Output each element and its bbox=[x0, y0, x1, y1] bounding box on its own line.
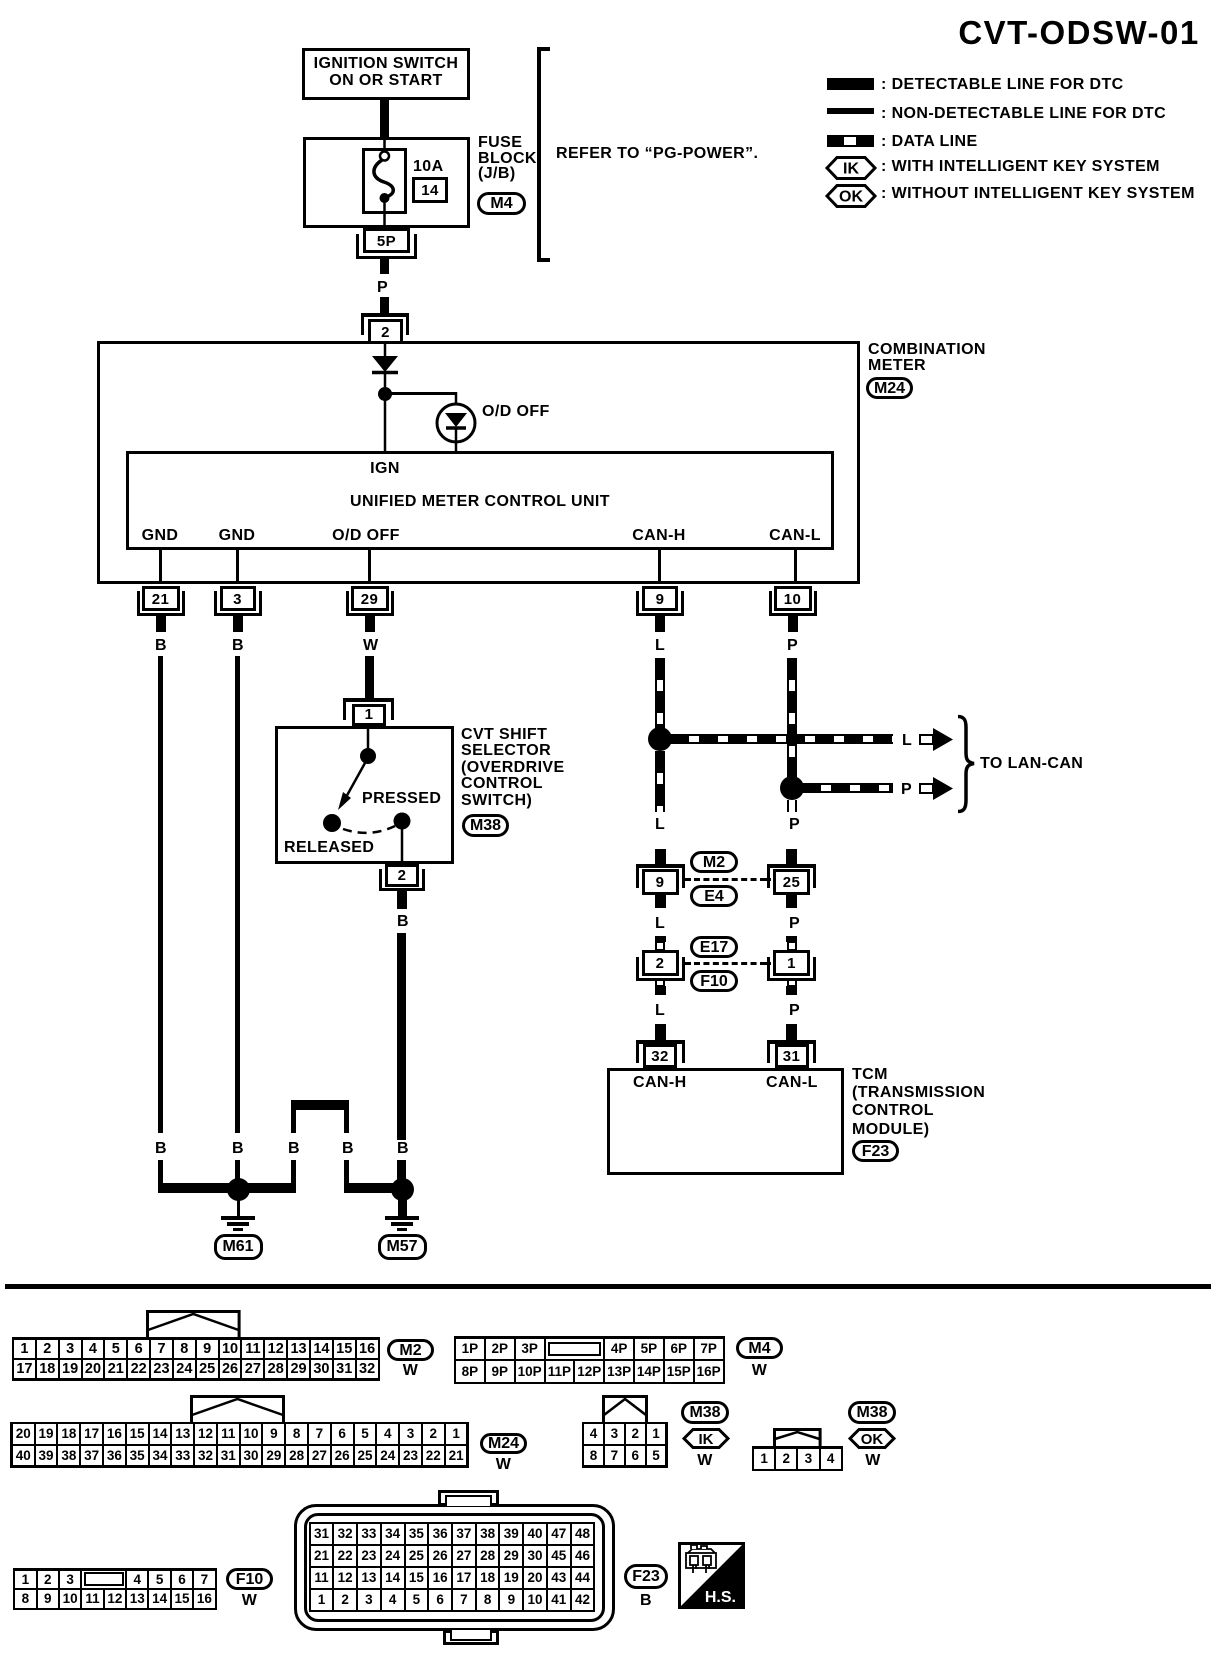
wire W from pin 29 down to CVT selector bbox=[365, 656, 374, 698]
wire seg to bus 2 bbox=[235, 1160, 240, 1183]
dashed link 2 to 1 bbox=[684, 962, 691, 965]
CVT selector connector 2 box bbox=[385, 864, 419, 887]
connector id F10 oval bbox=[690, 970, 738, 992]
arrow L to lan-can bbox=[919, 727, 955, 751]
connector M24 tab bbox=[190, 1395, 285, 1425]
fuse symbol bbox=[362, 137, 407, 228]
ground symbol M61 bbox=[237, 1198, 240, 1217]
unified meter control unit box bbox=[126, 451, 834, 550]
TO LAN-CAN label bbox=[980, 755, 1083, 773]
M24 colour W bbox=[480, 1456, 527, 1474]
F23 colour B bbox=[624, 1592, 668, 1610]
CVT selector connector 1 shroud bbox=[343, 698, 394, 702]
pin label GND 1 bbox=[120, 527, 200, 545]
label P at lan-can bbox=[901, 781, 912, 799]
wire label B below CVT bbox=[397, 913, 409, 931]
junction node inside meter bbox=[378, 387, 392, 401]
wire label B jumper left bbox=[288, 1140, 300, 1158]
LED O/D OFF indicator bbox=[430, 392, 490, 454]
inline connector 9 (M2/E4) CAN-H bbox=[636, 864, 685, 868]
M38 IK colour W bbox=[681, 1452, 729, 1470]
TCM connector 31 box bbox=[775, 1044, 809, 1068]
wire pin stub GND 21 bbox=[159, 550, 162, 584]
TCM pin label CAN-H bbox=[633, 1074, 687, 1092]
wire label B gnd1 bbox=[155, 637, 167, 655]
diode D inside meter bbox=[360, 343, 480, 453]
connector id M2 oval (bottom) bbox=[387, 1339, 434, 1361]
connector M38-OK tab bbox=[773, 1428, 822, 1449]
M4 colour W bbox=[736, 1362, 783, 1380]
connector id M38 oval (OK) bbox=[848, 1401, 896, 1424]
label L at lan-can bbox=[902, 732, 912, 750]
wire seg to bus 5 bbox=[397, 1160, 406, 1183]
legend data line text bbox=[881, 133, 978, 151]
wire label L canh bbox=[655, 637, 665, 655]
wire stub above TCM 32 bbox=[655, 1024, 666, 1044]
connector F23 top tab bbox=[438, 1490, 499, 1506]
pin 21 connector box under meter bbox=[142, 586, 180, 611]
wire stub below 5P bbox=[380, 259, 389, 274]
connector F23 bottom tab bbox=[443, 1630, 499, 1645]
legend IK text bbox=[881, 158, 1160, 176]
wire pin stub GND 3 bbox=[236, 550, 239, 584]
wire label W od bbox=[363, 637, 379, 655]
IGN label bbox=[345, 460, 425, 478]
wire label P bbox=[377, 279, 388, 297]
fuse block label bbox=[478, 135, 537, 182]
M38 OK colour W bbox=[849, 1452, 897, 1470]
connector M4 pin grid bbox=[454, 1336, 726, 1384]
wire junction to LED bbox=[385, 392, 456, 395]
connector id M38 oval bbox=[462, 814, 509, 837]
dashed link 9 to 25 bbox=[684, 878, 691, 881]
connector id M4 oval (bottom) bbox=[736, 1337, 783, 1359]
wire label P canl bbox=[787, 637, 798, 655]
TCM pin label CAN-L bbox=[766, 1074, 818, 1092]
wire stub above TCM 31 bbox=[786, 1024, 797, 1044]
legend non-detectable text bbox=[881, 105, 1166, 123]
RELEASED label bbox=[284, 839, 374, 857]
wire label B gnd2 bbox=[232, 637, 244, 655]
connector M24 pin grid bbox=[10, 1422, 469, 1468]
junction node CAN-L bbox=[780, 776, 804, 800]
connector id M4 oval bbox=[477, 192, 526, 215]
wire ignition to fuse block (detectable) bbox=[380, 100, 389, 137]
pin label GND 2 bbox=[197, 527, 277, 545]
TCM connector 32 box bbox=[643, 1044, 677, 1068]
wire label L mid3 bbox=[655, 1002, 665, 1020]
CVT selector connector 1 box bbox=[352, 704, 386, 726]
M2 colour W bbox=[387, 1362, 434, 1380]
F10 colour W bbox=[226, 1592, 273, 1610]
pin 3 connector box under meter bbox=[220, 586, 256, 611]
connector M38-IK tab bbox=[602, 1395, 648, 1425]
wire pin stub CAN-H 9 bbox=[658, 550, 661, 584]
inline connector 25 (M2/E4) CAN-L bbox=[767, 864, 816, 868]
TCM connector 31 shroud bbox=[767, 1040, 816, 1044]
switch internals bbox=[275, 726, 454, 864]
CAN-H data line below junction bbox=[655, 751, 665, 812]
ground id M61 oval bbox=[214, 1234, 263, 1260]
legend data line sample bbox=[827, 135, 874, 147]
wire label B gnd wire 1 bbox=[155, 1140, 167, 1158]
junction node ground M61 bbox=[227, 1178, 250, 1201]
wire label P mid2 bbox=[789, 915, 800, 933]
ignition switch box bbox=[302, 48, 470, 100]
pin 29 connector box under meter bbox=[351, 586, 389, 611]
connector F23 inner shell bbox=[304, 1513, 605, 1622]
connector id M2 oval bbox=[690, 851, 738, 873]
wire pin stub CAN-L 10 bbox=[794, 550, 797, 584]
connector id M24 oval (bottom) bbox=[480, 1433, 527, 1454]
meter connector 2 shroud bbox=[361, 313, 409, 317]
ground id M57 oval bbox=[378, 1234, 427, 1260]
wire label B gnd wire 2 bbox=[232, 1140, 244, 1158]
wire ground bus left bbox=[158, 1183, 240, 1193]
connector F23 outer shell bbox=[294, 1504, 615, 1631]
connector id F23 oval bbox=[852, 1140, 899, 1162]
CAN-L data line upper bbox=[787, 658, 797, 777]
arrow P to lan-can bbox=[919, 776, 955, 800]
inverted U jumper wire bbox=[291, 1100, 349, 1110]
pin label CAN-L bbox=[755, 527, 835, 545]
TCM connector 32 shroud bbox=[636, 1040, 685, 1044]
connector id E4 oval bbox=[690, 885, 738, 907]
legend detectable text bbox=[881, 76, 1124, 94]
wire label L mid1 bbox=[655, 816, 665, 834]
connector id E17 oval bbox=[690, 936, 738, 958]
wire ground bus mid bbox=[238, 1183, 296, 1193]
connector M38-OK pin grid bbox=[752, 1446, 844, 1471]
legend OK text bbox=[881, 185, 1195, 203]
ground symbol M57 bbox=[398, 1198, 407, 1217]
horizontal data line L to lan-can bbox=[670, 734, 893, 744]
fuse block box bbox=[303, 137, 470, 228]
meter connector 2 box bbox=[368, 319, 403, 344]
wire label B from switch bbox=[397, 1140, 409, 1158]
connector F23 pin grid bbox=[309, 1522, 596, 1612]
IK hexagon (bottom) bbox=[683, 1428, 729, 1449]
fuse bracket bbox=[537, 47, 541, 262]
wire B from pin 3 down bbox=[235, 656, 240, 1133]
wire seg to bus 4 bbox=[344, 1160, 349, 1193]
junction node ground M57 bbox=[391, 1178, 414, 1201]
unified meter control unit label bbox=[126, 493, 834, 511]
wire label P mid3 bbox=[789, 1002, 800, 1020]
label 10A bbox=[413, 158, 444, 176]
wire B from pin 21 down to ground bus bbox=[158, 656, 163, 1133]
combination meter label bbox=[868, 342, 986, 374]
junction node CAN-H bbox=[648, 727, 672, 751]
legend detectable line sample bbox=[827, 78, 874, 90]
fuse number 14 box bbox=[412, 177, 448, 203]
wire seg to bus 1 bbox=[158, 1160, 163, 1193]
refer to PG-POWER text bbox=[556, 145, 758, 163]
CVT shift selector box bbox=[275, 726, 454, 864]
wire label L mid2 bbox=[655, 915, 665, 933]
svg-text:OK: OK bbox=[839, 189, 863, 206]
pin 9 connector box under meter bbox=[642, 586, 678, 611]
legend IK hexagon bbox=[826, 156, 876, 180]
separator line bbox=[5, 1284, 1211, 1289]
pin label O/D OFF bbox=[326, 527, 406, 545]
inline connector 1 (E17/F10) CAN-L bbox=[786, 936, 797, 942]
connector 5P box bbox=[363, 228, 410, 253]
svg-text:H.S.: H.S. bbox=[705, 1589, 736, 1606]
connector M2 tab bbox=[146, 1310, 241, 1340]
ground bus right bbox=[346, 1183, 404, 1193]
CVT selector label bbox=[461, 727, 565, 809]
wire label P mid1 bbox=[789, 816, 800, 834]
OK hexagon (bottom) bbox=[849, 1428, 895, 1449]
TCM box bbox=[607, 1068, 844, 1175]
CAN-L data line below junction bbox=[787, 800, 797, 812]
wire stub above meter connector 2 bbox=[380, 297, 389, 314]
connector id M38 oval (IK) bbox=[681, 1401, 729, 1424]
connector id F23 oval (bottom) bbox=[624, 1564, 668, 1589]
svg-text:IK: IK bbox=[843, 161, 859, 178]
title CVT-ODSW-01 bbox=[956, 14, 1202, 52]
wire seg to bus 3 bbox=[291, 1160, 296, 1193]
connector 5P shroud bbox=[356, 234, 359, 259]
combination meter box bbox=[97, 341, 860, 584]
fuse 10A 14 inner box bbox=[362, 148, 407, 214]
svg-text:OK: OK bbox=[861, 1431, 884, 1448]
legend non-detectable line sample bbox=[827, 108, 874, 114]
wire stub below CVT connector 2 bbox=[397, 891, 407, 909]
H.S. hand symbol bbox=[678, 1542, 745, 1609]
inline connector 2 (E17/F10) CAN-H bbox=[655, 936, 666, 942]
connector id F10 oval (bottom) bbox=[226, 1568, 273, 1590]
connector M38-IK pin grid bbox=[582, 1422, 668, 1468]
horizontal data line P to lan-can bbox=[802, 783, 893, 793]
PRESSED label bbox=[362, 790, 441, 808]
CAN-H data line upper bbox=[655, 658, 665, 728]
connector F10 pin grid bbox=[13, 1568, 217, 1610]
wire pin stub O/D OFF 29 bbox=[368, 550, 371, 584]
CVT selector connector 2 shroud bbox=[379, 869, 382, 891]
legend OK hexagon bbox=[826, 184, 876, 208]
brace to lan-can bbox=[946, 715, 976, 813]
wire B from CVT selector down bbox=[397, 933, 406, 1140]
TCM label bbox=[852, 1066, 985, 1139]
connector M2 pin grid bbox=[12, 1337, 381, 1381]
svg-text:IK: IK bbox=[699, 1431, 714, 1448]
O/D OFF label bbox=[482, 403, 550, 421]
wire label B jumper right bbox=[342, 1140, 354, 1158]
connector id M24 oval bbox=[866, 377, 913, 399]
pin label CAN-H bbox=[619, 527, 699, 545]
pin 10 connector box under meter bbox=[774, 586, 812, 611]
